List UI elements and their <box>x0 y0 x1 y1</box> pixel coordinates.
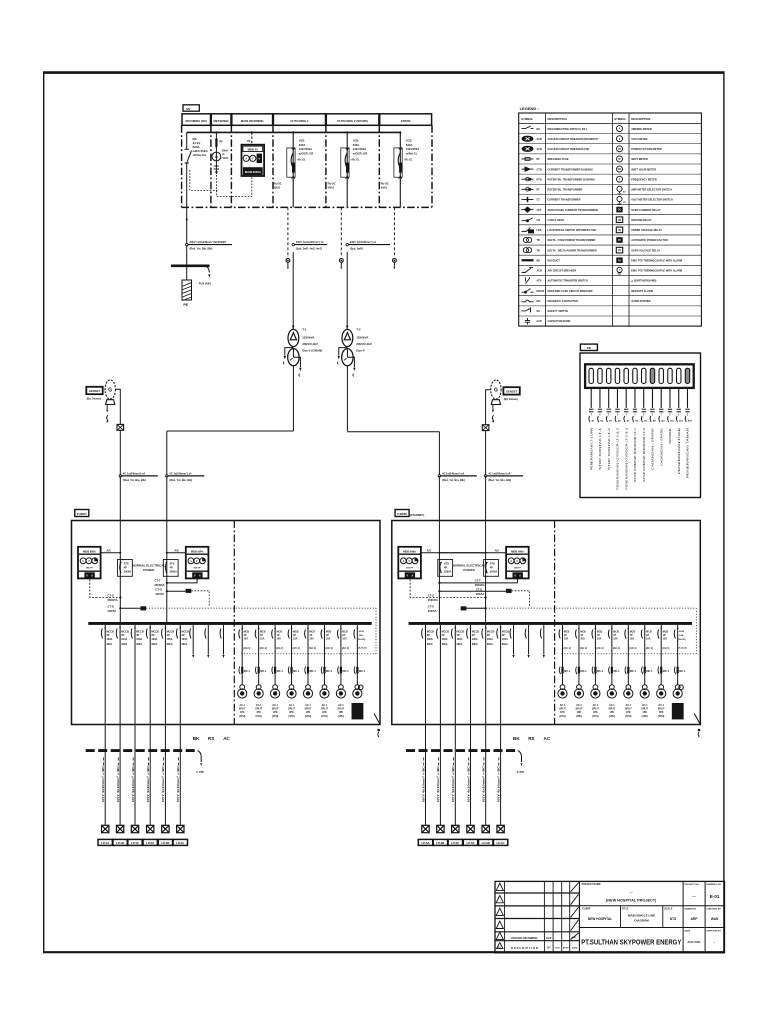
svg-text:1PK: 1PK <box>289 711 294 714</box>
PLN tap arrow <box>205 266 210 273</box>
svg-text:630A: 630A <box>353 143 359 147</box>
date cell <box>684 930 701 944</box>
revision slashes <box>571 883 579 940</box>
svg-text:(Red, Yel, Blu, Blk): (Red, Yel, Blu, Blk) <box>488 478 511 482</box>
svg-text:(By Owner): (By Owner) <box>87 396 101 400</box>
svg-text:100A: 100A <box>167 638 173 641</box>
svg-text:MCCB: MCCB <box>121 631 129 634</box>
MCCB feeder breaker P-MDP1-F5 <box>162 625 175 725</box>
svg-text:—: — <box>630 890 633 894</box>
svg-text:VCB: VCB <box>537 148 542 151</box>
svg-text:OVER CURRENT RELAY: OVER CURRENT RELAY <box>631 208 661 212</box>
svg-text:RS: RS <box>208 736 214 741</box>
svg-text:(S+N+E): (S+N+E) <box>358 648 367 650</box>
MCCB feeder breaker P-MDP2-F2 <box>437 625 450 725</box>
svg-text:2500/5A: 2500/5A <box>475 583 485 587</box>
svg-text:MCCB: MCCB <box>502 631 510 634</box>
svg-text:MCCB: MCCB <box>427 631 435 634</box>
feeder name plate LP.4C <box>493 839 507 845</box>
svg-text:4P: 4P <box>170 566 173 569</box>
svg-text:POTENTIAL TRANSFORMER: POTENTIAL TRANSFORMER <box>548 188 583 192</box>
svg-text:10A: 10A <box>326 637 331 640</box>
MCCB feeder breaker P-MDP2-F1 <box>422 625 435 725</box>
svg-text:10A: 10A <box>597 637 602 640</box>
client cell <box>582 907 612 920</box>
svg-text:LP.2B: LP.2B <box>161 841 170 845</box>
fuse switch FS2 <box>482 425 489 431</box>
motor feeder breaker P-MDP1-M3 <box>272 625 284 685</box>
feeder cable drop LP.1C <box>131 725 135 826</box>
svg-text:STOP KONTAK KORIDOR LT-1: STOP KONTAK KORIDOR LT-1 <box>633 427 637 482</box>
feeder cable drop LP.3B <box>436 725 440 826</box>
svg-text:DRAWING NO.: DRAWING NO. <box>706 883 721 886</box>
svg-text:DATE: DATE <box>572 947 578 950</box>
svg-text:LP.2C: LP.2C <box>176 841 185 845</box>
svg-text:+Rc GL: +Rc GL <box>297 159 306 162</box>
MV main bus <box>187 131 401 133</box>
legend meter/relay symbol row 13 <box>616 247 660 253</box>
svg-text:SPLIT: SPLIT <box>305 708 312 711</box>
svg-text:AC-1: AC-1 <box>593 704 599 707</box>
svg-text:MDB kWh: MDB kWh <box>511 549 524 553</box>
revision triangles <box>496 883 503 948</box>
legend symbol PTB row 6 <box>522 177 595 181</box>
panel center label <box>453 564 486 572</box>
svg-text:(AC-1): (AC-1) <box>596 647 603 650</box>
LV cable label T-2 <box>438 471 477 482</box>
project name cell <box>582 883 657 903</box>
svg-text:FREQUENCY METER: FREQUENCY METER <box>631 177 657 181</box>
svg-text:36kA: 36kA <box>106 643 112 646</box>
svg-text:MCCB: MCCB <box>151 631 159 634</box>
svg-text:PENERANGAN TAMAN: PENERANGAN TAMAN <box>686 428 690 478</box>
svg-text:ISSUED DRAWING: ISSUED DRAWING <box>511 936 538 940</box>
svg-text:2500A: 2500A <box>444 570 452 573</box>
LV cable label G1 <box>119 471 158 482</box>
svg-text:20kV/0.4kV: 20kV/0.4kV <box>356 342 372 346</box>
motor feeder breaker P-MDP1-M2 <box>255 625 267 685</box>
panel P-MDP1 section divider <box>233 521 235 725</box>
svg-text:CT-G: CT-G <box>428 604 434 608</box>
svg-text:Ry-OC: Ry-OC <box>328 182 336 186</box>
svg-text:1PK: 1PK <box>273 711 278 714</box>
wire G2 into panel <box>485 476 487 622</box>
svg-text:AC-1: AC-1 <box>289 704 295 707</box>
LV cable label T-1 <box>166 471 205 482</box>
svg-text:TR: TR <box>537 239 541 242</box>
svg-text:(AC-1): (AC-1) <box>293 647 300 650</box>
svg-text:10A: 10A <box>277 637 282 640</box>
svg-text:PENERANGAN KORIDOR LT-1 & 2: PENERANGAN KORIDOR LT-1 & 2 <box>616 427 620 490</box>
legend meter/relay symbol row 2 <box>617 136 648 142</box>
feeder cable drop LP.1A <box>101 725 105 826</box>
feeder bus labels <box>513 736 551 741</box>
svg-text:LBS: LBS <box>537 229 542 232</box>
feeder name plate LP.3A <box>418 839 432 845</box>
svg-text:MC: MC <box>537 300 541 303</box>
svg-text:MOULDED CASE CIRCUIT BREAKER: MOULDED CASE CIRCUIT BREAKER <box>548 289 593 293</box>
panel P-MDP2 dashed enclosure <box>392 521 701 725</box>
svg-text:(1PH): (1PH) <box>609 715 615 718</box>
genset G1 label box <box>86 387 102 401</box>
svg-text:DATE: DATE <box>684 930 690 933</box>
svg-text:SYMBOL: SYMBOL <box>521 117 533 121</box>
svg-text:POTENTIAL TRANSFORMER BUSHING: POTENTIAL TRANSFORMER BUSHING <box>548 177 595 181</box>
svg-text:AC-1: AC-1 <box>609 704 615 707</box>
svg-text:AUG: AUG <box>572 936 577 939</box>
svg-text:ATS: ATS <box>537 280 542 283</box>
genset G2 label box <box>503 387 519 401</box>
svg-text:P-MDP1: P-MDP1 <box>77 512 87 516</box>
svg-text:P-MDP2: P-MDP2 <box>397 512 407 516</box>
svg-text:CURRENT TRANSFORMER BUSHING: CURRENT TRANSFORMER BUSHING <box>548 167 593 171</box>
svg-text:SPLIT: SPLIT <box>288 708 295 711</box>
feeder name plate LP.1B <box>113 839 127 845</box>
motor feeder breaker P-MDP2-M7 <box>658 625 670 685</box>
svg-text:24kV/25kA: 24kV/25kA <box>353 147 367 151</box>
main busbar P-MDP1 <box>88 622 371 625</box>
svg-text:(1PH): (1PH) <box>305 715 311 718</box>
svg-text:(1PH): (1PH) <box>658 715 664 718</box>
svg-text:PLN 20kV: PLN 20kV <box>199 282 212 286</box>
border frame <box>43 72 725 953</box>
panel PB busbar chassis <box>585 364 694 388</box>
svg-text:LP.3C: LP.3C <box>451 841 460 845</box>
legend symbol VCB row 2 <box>522 136 598 141</box>
svg-text:1250kVA: 1250kVA <box>302 335 315 339</box>
svg-text:PF: PF <box>537 158 541 161</box>
svg-text:1PK: 1PK <box>626 711 631 714</box>
svg-text:(AC-1): (AC-1) <box>243 647 250 650</box>
svg-text:AC-1: AC-1 <box>626 704 632 707</box>
svg-text:MDB-01: MDB-01 <box>248 148 259 152</box>
legend meter/relay symbol row 14 <box>616 257 682 263</box>
junction box LP.2B <box>162 825 169 832</box>
svg-text:(AC-1): (AC-1) <box>276 647 283 650</box>
svg-text:GENSET: GENSET <box>89 389 101 393</box>
svg-text:(S+N+E): (S+N+E) <box>678 648 687 650</box>
svg-text:LP.1C: LP.1C <box>131 841 140 845</box>
svg-text:ZERO PHASE CURRENT TRANSFORMER: ZERO PHASE CURRENT TRANSFORMER <box>548 208 598 212</box>
motor P-MDP1-AC3 <box>271 685 280 718</box>
panel P-MDP2 section divider <box>554 521 556 725</box>
svg-text:VCB: VCB <box>353 138 359 142</box>
legend meter/relay symbol row 18 <box>631 299 650 303</box>
svg-text:MCCB: MCCB <box>537 290 545 293</box>
meter tap wires A/S <box>100 550 186 554</box>
svg-text:MAGNETIC CONTACTOR: MAGNETIC CONTACTOR <box>548 299 578 303</box>
svg-text:LP.2A: LP.2A <box>146 841 155 845</box>
svg-text:3P: 3P <box>427 634 430 637</box>
svg-text:Ry-OC: Ry-OC <box>381 182 389 186</box>
feeder cable drop LP.4B <box>482 725 486 826</box>
feeder name plate LP.2B <box>158 839 172 845</box>
svg-text:MC-1: MC-1 <box>244 670 251 673</box>
svg-text:4C 1x(240mm²) x4: 4C 1x(240mm²) x4 <box>442 471 465 475</box>
svg-text:CKD: CKD <box>555 948 560 950</box>
generator G2 (genset) <box>491 380 501 423</box>
svg-text:A/S: A/S <box>107 550 112 553</box>
junction box LP.4B <box>482 825 489 832</box>
svg-text:SPARE: SPARE <box>401 119 411 123</box>
svg-text:NYY 4x10mm² + BC: NYY 4x10mm² + BC <box>146 766 150 802</box>
svg-text:AC-1: AC-1 <box>642 704 648 707</box>
svg-text:3P: 3P <box>151 634 154 637</box>
svg-text:3P: 3P <box>167 634 170 637</box>
motor P-MDP2-AC3 <box>591 685 600 718</box>
wire to metering set <box>247 131 253 144</box>
svg-text:MC-1: MC-1 <box>277 670 284 673</box>
svg-text:10A: 10A <box>646 637 651 640</box>
feeder cable drop LP.4C <box>496 725 500 826</box>
control relay K1 <box>108 604 147 613</box>
wire G2 to P-MDP2 <box>486 390 491 425</box>
svg-text:(NEW HOSPITAL PROJECT): (NEW HOSPITAL PROJECT) <box>606 899 657 903</box>
svg-text:10A: 10A <box>564 637 569 640</box>
svg-text:CT-T: CT-T <box>154 579 160 583</box>
svg-text:100A: 100A <box>427 638 433 641</box>
junction box LP.3C <box>452 825 459 832</box>
svg-text:AUDIO BUZZER: AUDIO BUZZER <box>631 299 650 303</box>
svg-text:NYY 4x10mm² + BC: NYY 4x10mm² + BC <box>482 766 486 802</box>
svg-text:CADANGAN / SPARE: CADANGAN / SPARE <box>659 428 663 466</box>
svg-text:36kA: 36kA <box>121 643 127 646</box>
svg-text:36kA: 36kA <box>136 643 142 646</box>
feeder name plate LP.2C <box>173 839 187 845</box>
svg-text:PB: PB <box>587 346 591 350</box>
svg-text:DELTA - STAR POWER TRANSFORME: DELTA - STAR POWER TRANSFORMER <box>548 238 596 242</box>
svg-text:400V 1x(3x240mm²) x4: 400V 1x(3x240mm²) x4 <box>296 240 324 244</box>
svg-text:1PK: 1PK <box>593 711 598 714</box>
svg-text:100A: 100A <box>502 638 508 641</box>
svg-text:TITLE: TITLE <box>622 907 629 910</box>
svg-text:DRAWN BY: DRAWN BY <box>684 907 696 910</box>
svg-text:AUTOMATIC TRANSFER SWITCH: AUTOMATIC TRANSFER SWITCH <box>548 279 589 283</box>
svg-text:OUTGOING-1: OUTGOING-1 <box>290 119 309 123</box>
MCB module B-02 <box>598 368 604 470</box>
feeder name plate LP.4B <box>479 839 493 845</box>
motor feeder breaker P-MDP2-M6 <box>641 625 653 685</box>
svg-text:CAP: CAP <box>537 320 543 323</box>
power transformer T-2 <box>337 252 371 431</box>
svg-text:4C 1x(240mm²) x4: 4C 1x(240mm²) x4 <box>169 471 192 475</box>
svg-text:(AC-1): (AC-1) <box>613 647 620 650</box>
svg-text:AMP METER SELECTOR SWITCH: AMP METER SELECTOR SWITCH <box>631 188 672 192</box>
MCB module B-08 <box>650 368 656 470</box>
legend meter/relay symbol row 10 <box>616 217 652 223</box>
svg-text:ATS: ATS <box>124 561 129 565</box>
svg-text:(Red, Yel, Blu, Blk): (Red, Yel, Blu, Blk) <box>123 478 146 482</box>
revision table texts <box>497 936 578 950</box>
svg-text:BY: BY <box>547 948 551 950</box>
svg-text:△ (EARTH/GROUND): △ (EARTH/GROUND) <box>630 279 656 283</box>
svg-text:AC-1: AC-1 <box>272 704 278 707</box>
svg-text:24kV/25kA: 24kV/25kA <box>406 147 420 151</box>
svg-text:POWER: POWER <box>143 568 155 572</box>
legend meter/relay symbol row 16 <box>630 279 656 283</box>
svg-text:1PK: 1PK <box>339 711 344 714</box>
svg-text:NTS: NTS <box>670 917 676 921</box>
drawing no cell <box>706 883 721 899</box>
svg-text:VCB: VCB <box>299 138 305 142</box>
wire T-2 into panel <box>438 476 440 622</box>
svg-text:AC-1: AC-1 <box>658 704 664 707</box>
svg-text:MC-1: MC-1 <box>679 670 686 673</box>
MV switchgear label box MVMDP <box>183 105 199 111</box>
legend symbol CTB row 5 <box>522 167 593 171</box>
svg-text:A: A <box>245 158 247 161</box>
legend meter/relay symbol row 12 <box>616 237 668 243</box>
svg-text:1PK: 1PK <box>240 711 245 714</box>
feeder cable drop LP.4A <box>466 725 470 826</box>
svg-text:3P: 3P <box>182 634 185 637</box>
svg-text:(1PH): (1PH) <box>288 715 294 718</box>
svg-text:PT: PT <box>537 189 541 192</box>
motor P-MDP1-AC8 <box>352 685 364 720</box>
svg-text:4P: 4P <box>490 566 493 569</box>
feeder name plate LP.4A <box>463 839 477 845</box>
motor P-MDP1-AC5 <box>303 685 312 718</box>
legend meter/relay symbol row 11 <box>616 227 662 233</box>
metering set P-MDP2-M2 <box>506 547 529 579</box>
svg-text:MCCB: MCCB <box>106 631 114 634</box>
svg-text:10A: 10A <box>663 637 668 640</box>
svg-text:CLIENT: CLIENT <box>582 907 591 910</box>
svg-text:ATS: ATS <box>444 561 449 565</box>
svg-text:3P: 3P <box>487 634 490 637</box>
legend symbol CAP row 20 <box>525 318 571 325</box>
motor P-MDP2-AC8 <box>672 685 684 720</box>
legend symbol BD row 14 <box>522 258 561 262</box>
svg-text:MDB kWh: MDB kWh <box>191 549 204 553</box>
svg-text:10A: 10A <box>613 637 618 640</box>
svg-text:(1PH): (1PH) <box>256 715 262 718</box>
svg-text:1PK: 1PK <box>560 711 565 714</box>
wire G1 into panel <box>119 476 121 622</box>
junction box LP.1A <box>102 825 109 832</box>
svg-text:4P: 4P <box>444 566 447 569</box>
svg-text:/110V: /110V <box>222 156 229 160</box>
motor feeder breaker P-MDP1-M4 <box>288 625 300 685</box>
svg-text:4C 1x(240mm²) x4: 4C 1x(240mm²) x4 <box>488 471 511 475</box>
MCCB feeder breaker P-MDP1-F6 <box>176 625 189 725</box>
svg-text:PE: PE <box>183 303 188 307</box>
lightning arrester LA2 <box>339 207 343 269</box>
svg-text:ZCT: ZCT <box>537 209 542 212</box>
metering set U1 (meters) <box>242 145 265 176</box>
legend symbol ZCT row 9 <box>522 207 598 212</box>
feeder bend T-1 to P-MDP1 <box>167 430 294 432</box>
MCB module B-01 <box>589 368 595 470</box>
motor feeder breaker P-MDP1-M6 <box>321 625 333 685</box>
svg-text:w/OCR, GR: w/OCR, GR <box>298 152 313 156</box>
field tap F-PID <box>517 751 524 774</box>
panel P-MDP1 dashed enclosure <box>72 521 381 725</box>
svg-text:PT: PT <box>215 156 219 159</box>
junction box LP.4C <box>497 825 504 832</box>
svg-text:kWh PF: kWh PF <box>406 567 414 569</box>
svg-text:PF: PF <box>219 140 223 144</box>
svg-text:MCCB: MCCB <box>472 631 480 634</box>
feeder cable drop LP.1B <box>116 725 120 826</box>
feeder cable drop LP.2A <box>146 725 150 826</box>
junction box LP.1B <box>116 825 123 832</box>
svg-text:(3ph, 3wR): (3ph, 3wR) <box>350 246 363 250</box>
svg-text:2500A: 2500A <box>124 570 132 573</box>
legend meter/relay symbol row 15 <box>617 267 682 274</box>
svg-text:GROUND RELAY: GROUND RELAY <box>631 218 652 222</box>
svg-text:CADANGAN / SPARE: CADANGAN / SPARE <box>651 428 655 470</box>
power fuse PF <box>215 139 223 148</box>
legend symbol TR row 12 <box>523 237 595 242</box>
MCCB feeder breaker P-MDP1-F3 <box>131 625 144 725</box>
svg-text:NYY 4x10mm² + BC: NYY 4x10mm² + BC <box>466 766 470 802</box>
legend table grid <box>519 113 702 326</box>
svg-text:36kA: 36kA <box>487 643 493 646</box>
svg-text:+Rc GL: +Rc GL <box>404 159 413 162</box>
lightning arrester LA1 <box>286 207 290 269</box>
svg-text:VOLT METER SELECTOR SWITCH: VOLT METER SELECTOR SWITCH <box>631 198 673 202</box>
svg-text:UV: UV <box>618 230 622 232</box>
automatic transfer switch ATS-1 P-MDP2 <box>438 560 453 577</box>
drawn by cell <box>684 907 698 920</box>
svg-text:AC-1: AC-1 <box>560 704 566 707</box>
svg-text:MCCB: MCCB <box>136 631 144 634</box>
svg-text:GR: GR <box>618 220 622 222</box>
motor P-MDP2-AC1 <box>558 685 567 718</box>
svg-text:APPROVED BY: APPROVED BY <box>706 930 721 933</box>
feeder cable drop LP.3C <box>451 725 455 826</box>
legend meter/relay symbol row 4 <box>617 156 649 162</box>
svg-text:630A: 630A <box>299 143 305 147</box>
svg-text:STOP KONTAK KORIDOR LT-2: STOP KONTAK KORIDOR LT-2 <box>642 427 646 482</box>
svg-text:1PK: 1PK <box>659 711 664 714</box>
svg-text:VACUUM CIRCUIT BREAKER (DRAWOU: VACUUM CIRCUIT BREAKER (DRAWOUT) <box>548 137 599 141</box>
svg-text:CTB: CTB <box>537 168 542 171</box>
svg-text:NYY 4x10mm² + BC: NYY 4x10mm² + BC <box>451 766 455 802</box>
svg-text:MC-1: MC-1 <box>293 670 300 673</box>
legend symbol CT row 8 <box>522 197 581 202</box>
svg-text:LP.4C: LP.4C <box>497 841 506 845</box>
svg-text:Dyn-5 (ONAN): Dyn-5 (ONAN) <box>302 349 322 353</box>
legend symbol SS row 19 <box>522 307 569 313</box>
svg-text:ARP: ARP <box>691 917 699 921</box>
svg-text:MV: MV <box>186 107 190 111</box>
svg-text:20kV 1x(3x35mm²) x1: 20kV 1x(3x35mm²) x1 <box>350 240 377 244</box>
svg-text:PENERANGAN KORIDOR LT-2 & 3: PENERANGAN KORIDOR LT-2 & 3 <box>624 427 628 490</box>
svg-text:(3ph, 3wR, 4wS, 4wT): (3ph, 3wR, 4wS, 4wT) <box>296 246 322 250</box>
legend symbol TR row 13 <box>523 248 597 253</box>
svg-text:SPLIT: SPLIT <box>576 708 583 711</box>
svg-text:NYY 4x10mm² + BC: NYY 4x10mm² + BC <box>176 766 180 802</box>
svg-text:AAP: AAP <box>546 936 552 940</box>
PLN incoming busbar <box>171 264 210 267</box>
svg-text:MAIN INCOMING: MAIN INCOMING <box>241 119 265 123</box>
svg-text:2500A: 2500A <box>170 570 178 573</box>
feeder bend T-2 to P-MDP2 <box>347 431 439 433</box>
legend meter/relay symbol row 8 <box>617 196 673 204</box>
feeder name plate LP.3C <box>448 839 462 845</box>
svg-text:SAFETY SWITCH: SAFETY SWITCH <box>548 309 569 313</box>
power transformer T-1 <box>283 252 322 431</box>
incoming utility wire <box>186 207 188 265</box>
legend symbol PT row 7 <box>522 188 583 192</box>
DS rating label <box>192 137 209 157</box>
svg-text:-: - <box>714 941 715 945</box>
svg-text:CT-G: CT-G <box>108 604 114 608</box>
svg-text:(1PH): (1PH) <box>272 715 278 718</box>
vacuum circuit breaker VCB outgoing-2 <box>328 131 368 207</box>
